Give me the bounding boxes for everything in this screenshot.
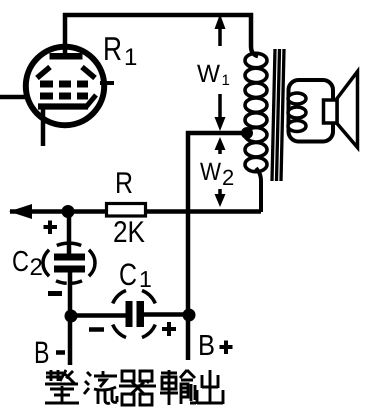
svg-text:R: R	[115, 167, 133, 200]
svg-text:2: 2	[30, 254, 43, 281]
svg-text:2: 2	[222, 165, 234, 190]
svg-text:1: 1	[124, 44, 137, 71]
svg-text:C: C	[119, 257, 137, 292]
svg-text:B: B	[198, 330, 215, 362]
svg-text:1: 1	[139, 266, 152, 292]
svg-text:2K: 2K	[113, 216, 145, 249]
svg-text:W: W	[197, 60, 220, 88]
svg-text:W: W	[200, 158, 221, 186]
svg-text:1: 1	[222, 72, 230, 89]
svg-text:C: C	[12, 246, 29, 278]
svg-text:B: B	[34, 335, 50, 370]
svg-text:R: R	[103, 30, 122, 67]
